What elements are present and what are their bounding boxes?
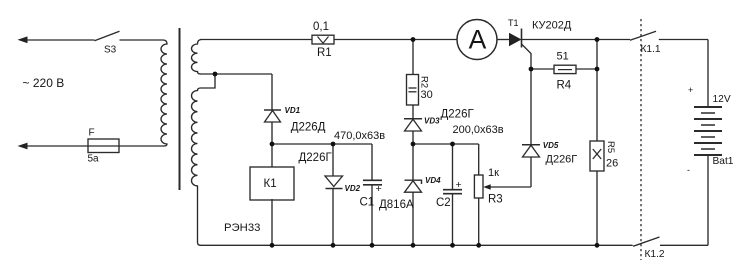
svg-text:12V: 12V <box>713 94 731 105</box>
svg-text:Д226Г: Д226Г <box>299 152 333 164</box>
svg-text:R1: R1 <box>317 47 332 59</box>
svg-text:F: F <box>89 128 95 139</box>
svg-text:+: + <box>688 85 693 95</box>
svg-text:C2: C2 <box>436 197 451 209</box>
svg-text:-: - <box>687 165 690 175</box>
svg-text:R3: R3 <box>488 194 503 206</box>
svg-text:VD2: VD2 <box>345 184 361 193</box>
svg-text:VD1: VD1 <box>285 106 301 115</box>
svg-text:T1: T1 <box>508 18 519 28</box>
svg-text:5a: 5a <box>88 154 100 165</box>
svg-text:R2: R2 <box>419 76 430 88</box>
svg-text:0,1: 0,1 <box>313 21 329 33</box>
svg-text:200,0х63в: 200,0х63в <box>453 124 504 136</box>
svg-text:Д226Г: Д226Г <box>441 109 475 121</box>
svg-text:+: + <box>376 183 382 195</box>
svg-text:470,0х63в: 470,0х63в <box>334 130 385 142</box>
svg-text:R4: R4 <box>557 80 572 92</box>
svg-text:VD4: VD4 <box>425 176 441 185</box>
svg-text:R5: R5 <box>605 141 616 153</box>
svg-text:К1.2: К1.2 <box>645 249 665 260</box>
svg-text:26: 26 <box>606 158 618 170</box>
svg-text:К1: К1 <box>264 178 277 190</box>
svg-text:51: 51 <box>557 51 569 63</box>
svg-text:К1.1: К1.1 <box>641 44 661 55</box>
svg-text:C1: C1 <box>360 197 375 209</box>
svg-text:+: + <box>456 179 462 191</box>
svg-text:РЭН33: РЭН33 <box>224 222 260 234</box>
svg-text:30: 30 <box>421 89 433 101</box>
svg-text:Д226Д: Д226Д <box>291 122 326 134</box>
svg-text:Д816А: Д816А <box>379 199 414 211</box>
svg-text:КУ202Д: КУ202Д <box>532 20 572 32</box>
svg-text:Д226Г: Д226Г <box>546 154 578 166</box>
svg-text:Bat1: Bat1 <box>713 156 734 167</box>
svg-text:VD3: VD3 <box>424 117 440 126</box>
svg-text:A: A <box>469 24 487 54</box>
svg-text:1к: 1к <box>488 167 499 179</box>
svg-text:VD5: VD5 <box>543 141 559 150</box>
svg-text:~ 220 В: ~ 220 В <box>23 76 65 90</box>
svg-text:S3: S3 <box>104 45 117 56</box>
